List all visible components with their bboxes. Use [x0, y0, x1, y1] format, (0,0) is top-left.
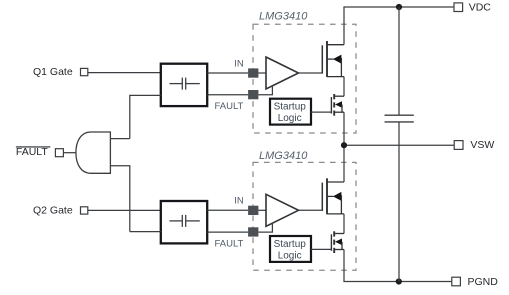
wire FAULT terminal to AND gate G1	[63, 152, 76, 154]
svg-text:FAULT: FAULT	[215, 239, 244, 250]
wire FAULT pin to buffer A1	[258, 86, 272, 95]
svg-text:Logic: Logic	[278, 113, 302, 124]
svg-text:VSW: VSW	[470, 139, 494, 151]
wire Startup Logic U2 to M2 gate	[311, 248, 332, 250]
PGND terminal	[452, 277, 461, 286]
wire Q2 drain to VSW rail	[343, 145, 345, 182]
svg-text:IN: IN	[234, 58, 244, 69]
wire Q1 source to M1 drain	[343, 77, 345, 97]
svg-text:Q2 Gate: Q2 Gate	[33, 204, 73, 216]
capacitor C1 symbol	[170, 78, 200, 90]
node VSW junction	[341, 142, 347, 148]
capacitor C3 plates	[385, 114, 414, 116]
svg-text:FAULT: FAULT	[215, 101, 244, 112]
wire isolator C1 to IN pin U1	[207, 72, 248, 74]
transistor Q1 (GaN FET)	[322, 41, 344, 77]
Q2 Gate terminal	[81, 207, 88, 214]
VSW terminal	[454, 141, 463, 150]
isolator box C2	[161, 201, 207, 243]
node VDC junction	[396, 4, 402, 10]
transistor M2 (startup FET)	[331, 231, 344, 253]
wire Startup Logic U1 to M1 gate	[311, 111, 332, 113]
capacitor C2 symbol	[170, 215, 200, 227]
wire Q2 source to M2 drain	[343, 214, 345, 234]
wire riser to isolator C2 fault-side	[130, 231, 161, 233]
wire buffer A1 to gate of Q1	[299, 72, 324, 74]
capacitor C3 lower lead	[398, 122, 400, 282]
wire isolator C2 to IN pin U2	[207, 209, 248, 211]
FAULT overline	[16, 146, 50, 148]
wire Q1 drain to VDC rail	[343, 7, 345, 45]
svg-text:VDC: VDC	[469, 2, 492, 14]
VDC rail wire	[343, 6, 454, 8]
Startup Logic box U2	[270, 236, 311, 262]
pin IN U2 (filled square)	[248, 206, 258, 215]
wire buffer A2 to gate of Q2	[299, 209, 324, 211]
wire IN pin to buffer A2	[258, 209, 266, 211]
svg-text:LMG3410: LMG3410	[259, 10, 308, 22]
svg-text:Q1 Gate: Q1 Gate	[33, 66, 73, 78]
Q1 Gate terminal	[81, 68, 88, 75]
LMG3410 U2 dashed outline	[253, 162, 356, 270]
svg-text:LMG3410: LMG3410	[259, 150, 308, 162]
wire FAULT pin to buffer A2	[258, 223, 272, 232]
VDC terminal	[454, 3, 463, 12]
wire M2 source to PGND rail	[343, 250, 345, 282]
buffer A1	[266, 57, 299, 89]
wire Q2 Gate to isolator C2	[88, 209, 161, 211]
wire AND gate G1 lower input riser	[110, 166, 129, 232]
svg-text:Logic: Logic	[278, 250, 302, 261]
VSW rail wire	[344, 144, 454, 146]
AND gate G1 (reversed)	[76, 132, 111, 173]
svg-text:Startup: Startup	[274, 239, 307, 250]
wire Q1 Gate to isolator C1	[88, 72, 161, 74]
transistor M1 (startup FET)	[331, 94, 344, 116]
svg-text:IN: IN	[234, 196, 244, 207]
wire M1 source to VSW rail	[343, 112, 345, 145]
wire isolator C2 to FAULT pin U2	[207, 231, 248, 233]
FAULT terminal	[55, 149, 63, 157]
LMG3410 U1 dashed outline	[253, 24, 356, 133]
wire isolator C1 fault-side to AND gate riser	[130, 95, 161, 138]
pin FAULT U1 (filled square)	[248, 90, 258, 99]
wire AND gate G1 upper input	[110, 138, 129, 140]
svg-text:Startup: Startup	[274, 102, 307, 113]
transistor Q2 (GaN FET)	[322, 178, 344, 214]
isolator box C1	[161, 64, 207, 106]
svg-text:FAULT: FAULT	[16, 146, 48, 158]
PGND rail wire	[343, 281, 451, 283]
buffer A2	[266, 194, 299, 226]
pin FAULT U2 (filled square)	[248, 227, 258, 236]
wire IN pin to buffer A1	[258, 72, 266, 74]
pin IN U1 (filled square)	[248, 68, 258, 77]
Startup Logic box U1	[270, 99, 311, 125]
node PGND junction	[396, 278, 402, 284]
capacitor C3 bus cap upper lead	[398, 7, 400, 115]
wire isolator C1 to FAULT pin U1	[207, 94, 248, 96]
svg-text:PGND: PGND	[468, 276, 499, 288]
